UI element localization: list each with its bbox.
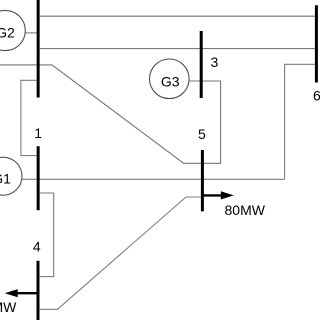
bus 4 bbox=[37, 261, 40, 320]
bus 3 bbox=[200, 31, 203, 98]
wire line 1-6 riser bbox=[285, 64, 315, 179]
wire line 3-5 bbox=[190, 81, 221, 163]
svg-text:5: 5 bbox=[198, 126, 206, 142]
bus 1 bbox=[37, 146, 40, 210]
bus 6 bbox=[315, 5, 318, 82]
generator G3 bbox=[150, 59, 190, 99]
generator G2 bbox=[0, 10, 25, 50]
svg-text:G2: G2 bbox=[0, 25, 15, 41]
generator G1 bbox=[0, 157, 22, 195]
svg-text:1: 1 bbox=[34, 125, 42, 141]
svg-text:G3: G3 bbox=[161, 73, 180, 89]
wire line 2-6 (top) bbox=[40, 15, 315, 17]
load arrow at bus 4 bbox=[5, 289, 38, 297]
svg-text:80MW: 80MW bbox=[225, 202, 266, 218]
wire G1 to bus 1 and line 1-6 horizontal bbox=[22, 178, 285, 180]
wire line 1-4 bbox=[40, 193, 54, 277]
svg-text:0MW: 0MW bbox=[0, 299, 17, 315]
wire line 2-5 bbox=[0, 65, 201, 163]
wire line 2-6 (second) bbox=[40, 48, 315, 50]
svg-text:G1: G1 bbox=[0, 170, 11, 186]
svg-text:4: 4 bbox=[33, 238, 41, 254]
wire line 2-1 bbox=[21, 80, 37, 155]
bus 2 bbox=[37, 0, 40, 98]
load arrow at bus 5 bbox=[203, 191, 234, 199]
bus 5 bbox=[201, 150, 204, 211]
svg-text:3: 3 bbox=[211, 54, 219, 70]
wire line 4-5 bbox=[40, 197, 202, 309]
wire G2 to bus 2 bbox=[25, 32, 37, 34]
svg-text:6: 6 bbox=[313, 88, 320, 104]
